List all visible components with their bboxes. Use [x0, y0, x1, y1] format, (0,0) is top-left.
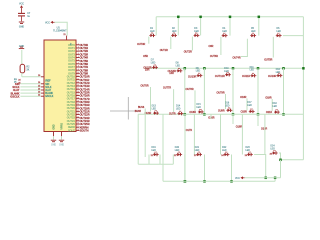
svg-text:LED: LED [273, 106, 278, 108]
svg-text:LED: LED [196, 71, 201, 73]
IC U1 TLC5940NT [44, 26, 76, 131]
svg-text:D1: D1 [150, 28, 154, 30]
wire [241, 39, 248, 57]
junction [232, 113, 235, 116]
svg-text:OUT8R: OUT8R [185, 88, 193, 91]
wire [61, 136, 63, 139]
svg-text:10: 10 [77, 72, 79, 74]
svg-text:LED: LED [176, 109, 181, 111]
svg-text:LED: LED [250, 70, 255, 72]
pin GSCLK (IC left) [41, 95, 44, 97]
svg-text:VCC: VCC [235, 177, 240, 180]
junction [203, 67, 206, 70]
LED D18 [274, 109, 280, 114]
wire [280, 160, 282, 178]
wire [20, 83, 41, 85]
svg-text:D20: D20 [175, 147, 180, 149]
svg-text:OU7R: OU7R [169, 113, 176, 116]
pin OUT0 (IC right, pin 1) [68, 43, 79, 46]
ground GND (below C7) [19, 22, 25, 29]
svg-text:24: 24 [38, 88, 40, 90]
junction [264, 177, 267, 180]
label D16 LED [225, 103, 230, 108]
svg-text:19: 19 [77, 100, 79, 102]
svg-text:O19R: O19R [261, 127, 268, 130]
svg-text:O5R: O5R [143, 55, 148, 58]
svg-text:24: 24 [77, 116, 79, 118]
svg-text:OUT6R: OUT6R [140, 84, 148, 87]
LED D19 [153, 152, 159, 157]
svg-text:LED: LED [222, 150, 227, 152]
junction [258, 16, 261, 18]
wire [283, 68, 285, 114]
svg-text:D5: D5 [251, 28, 255, 30]
svg-text:D19: D19 [151, 147, 156, 149]
svg-text:21: 21 [63, 34, 66, 36]
wire [172, 155, 174, 165]
svg-text:D13: D13 [152, 106, 157, 108]
svg-text:LED: LED [175, 150, 180, 152]
power flag VCC (matrix supply) [235, 176, 245, 180]
LED D22 [224, 152, 230, 157]
pin OUT10 (IC right, pin 11) [67, 75, 80, 78]
pin OUT4 (IC right, pin 5) [68, 56, 79, 59]
svg-text:OU10R: OU10R [268, 75, 277, 78]
svg-text:LED: LED [151, 63, 156, 65]
junction [184, 180, 187, 183]
LED D14 [178, 111, 184, 116]
wire [184, 68, 185, 71]
wire [148, 37, 150, 44]
wire [170, 37, 172, 49]
label D21 LED [195, 147, 200, 152]
junction [177, 16, 180, 18]
pin OUT5 (IC right, pin 6) [68, 59, 79, 62]
svg-text:14R: 14R [169, 72, 174, 75]
wire (lower link) [138, 163, 173, 165]
svg-text:OUT7R: OUT7R [163, 87, 171, 90]
ground GND (IC pin) [59, 140, 65, 146]
svg-text:LED: LED [195, 150, 200, 152]
label D15 LED [196, 104, 201, 109]
svg-text:24: 24 [18, 80, 21, 82]
LED D7 [152, 65, 158, 70]
pin OUT15 (IC right, pin 16) [67, 91, 80, 94]
LED D11 [251, 73, 257, 78]
junction [257, 67, 260, 70]
wire [254, 155, 266, 178]
svg-text:1u: 1u [27, 15, 30, 18]
wire [279, 153, 303, 160]
pin OUT3 (IC right, pin 4) [68, 53, 79, 56]
label D18 LED [273, 103, 278, 108]
svg-text:25: 25 [77, 119, 79, 121]
wire [232, 114, 234, 124]
junction [203, 113, 206, 116]
LED D2 [171, 33, 177, 38]
svg-text:D2: D2 [172, 28, 176, 30]
label D10 LED [224, 68, 229, 73]
junction [274, 177, 277, 180]
wire (row bus 3) [138, 113, 303, 115]
wire [20, 92, 41, 94]
LED D24 [272, 150, 278, 155]
wire [21, 50, 23, 64]
label D7 LED [151, 60, 156, 65]
wire [22, 76, 41, 78]
svg-text:27: 27 [77, 126, 79, 128]
svg-text:21: 21 [151, 155, 154, 157]
junction [302, 67, 305, 70]
svg-text:23: 23 [194, 155, 197, 157]
wire (row bus 2) [145, 67, 304, 69]
svg-text:OU11R: OU11R [242, 75, 250, 78]
pin IREF [41, 76, 44, 78]
svg-text:14: 14 [77, 85, 79, 87]
pin OUT2 (IC right, pin 3) [68, 50, 79, 53]
wire (right vertical bus) [302, 17, 304, 160]
junction [232, 67, 235, 70]
LED D15 [198, 109, 204, 114]
junction [282, 67, 285, 70]
svg-text:11: 11 [77, 75, 79, 77]
junction [184, 180, 187, 183]
pin OUT21 (IC right, pin 22) [67, 110, 80, 113]
label D20 LED [175, 147, 180, 152]
label D3 LED [194, 28, 199, 33]
svg-text:O17R: O17R [186, 129, 193, 132]
svg-text:26: 26 [77, 123, 79, 125]
wire [162, 114, 164, 181]
wire [191, 37, 193, 51]
wire [20, 95, 41, 97]
label D23 LED [246, 147, 251, 152]
svg-text:OU9R: OU9R [218, 109, 225, 112]
svg-text:O18R: O18R [240, 96, 247, 99]
wire [150, 87, 152, 111]
label D11 LED [250, 67, 255, 72]
junction [203, 180, 206, 183]
svg-text:O6R: O6R [208, 45, 213, 48]
wire [231, 155, 233, 182]
pin OUT7 (IC right, pin 8) [68, 66, 79, 69]
pin VCC (pin 21) [66, 36, 68, 40]
svg-text:28: 28 [77, 129, 79, 131]
wire [155, 17, 157, 36]
svg-text:SOUT: SOUT [68, 129, 75, 132]
pin SCLK (IC left) [41, 86, 44, 88]
svg-text:23: 23 [77, 113, 79, 115]
pin OUT18 (IC right, pin 19) [67, 100, 80, 103]
svg-text:D11: D11 [250, 67, 255, 69]
pin XLAT (IC left) [41, 89, 44, 91]
ground GND (IC pin) [51, 140, 57, 146]
wire [245, 177, 281, 179]
LED D21 [196, 152, 202, 157]
wire [144, 109, 146, 158]
label D14 LED [176, 106, 181, 111]
svg-text:O20R: O20R [241, 111, 248, 114]
wire [272, 37, 274, 58]
svg-text:VCC: VCC [19, 2, 24, 5]
svg-text:D4: D4 [222, 28, 226, 30]
LED D3 [194, 33, 200, 38]
svg-text:TLC5940NT: TLC5940NT [53, 29, 67, 32]
wire [283, 35, 304, 37]
junction [184, 67, 187, 70]
pin OUT1 (IC right, pin 2) [68, 47, 79, 50]
pin OUT12 (IC right, pin 13) [67, 81, 80, 84]
wire [148, 155, 150, 165]
LED D9 [197, 73, 203, 78]
wire [271, 99, 273, 111]
svg-text:23: 23 [38, 92, 40, 94]
power flag VCC (IC supply) [45, 21, 55, 25]
LED D6 [276, 33, 282, 38]
svg-text:D22: D22 [222, 147, 227, 149]
svg-text:GND: GND [54, 124, 56, 129]
svg-text:D12: D12 [276, 69, 281, 71]
svg-text:D17: D17 [247, 102, 252, 104]
label D19 LED [151, 147, 156, 152]
label D4 LED [222, 28, 227, 33]
label D8 LED [176, 63, 181, 68]
svg-text:22: 22 [174, 155, 177, 157]
svg-text:BUS5: BUS5 [135, 110, 142, 113]
wire [53, 136, 55, 139]
label D22 LED [222, 147, 227, 152]
junction [199, 16, 202, 18]
junction [257, 113, 260, 116]
wire [194, 90, 196, 111]
label D12 LED [276, 69, 281, 74]
svg-text:LED: LED [151, 150, 156, 152]
pin OUT25 (IC right, pin 26) [67, 123, 80, 126]
svg-text:D23: D23 [246, 147, 251, 149]
wire [220, 37, 222, 55]
pin OUT16 (IC right, pin 17) [67, 94, 80, 97]
junction [230, 180, 233, 183]
svg-text:22: 22 [77, 110, 79, 112]
wire [258, 17, 260, 36]
wire [55, 22, 68, 35]
wire [203, 68, 205, 114]
LED D10 [225, 72, 231, 77]
svg-text:12: 12 [77, 78, 79, 80]
wire [231, 68, 234, 74]
svg-text:SOUTN: SOUTN [80, 128, 89, 132]
svg-text:LED: LED [247, 105, 252, 107]
junction [279, 159, 282, 162]
pin OUT17 (IC right, pin 18) [67, 97, 80, 100]
LED D12 [277, 73, 283, 78]
svg-text:25: 25 [38, 85, 40, 87]
svg-text:21: 21 [77, 107, 79, 109]
wire [193, 114, 195, 154]
svg-text:GND: GND [51, 145, 56, 147]
LED D23 [247, 152, 253, 157]
svg-text:OUT12R: OUT12R [215, 75, 225, 78]
capacitor C7 [18, 12, 31, 18]
label D24 LED [270, 146, 275, 151]
pin SIN (IC left) [41, 83, 44, 85]
LED D8 [177, 68, 183, 73]
junction [184, 113, 187, 116]
wire [229, 17, 231, 36]
svg-text:25: 25 [245, 155, 248, 157]
wire [173, 89, 175, 112]
wire [177, 17, 179, 36]
LED D16 [227, 108, 233, 113]
svg-text:22: 22 [38, 95, 40, 97]
svg-text:D15: D15 [196, 104, 201, 106]
pin OUT13 (IC right, pin 14) [67, 85, 80, 88]
origin crosshair [110, 97, 139, 120]
pin XERR (IC right, pin 27) [68, 126, 80, 129]
label D6 LED [277, 28, 282, 33]
pin GND (IC bottom) [54, 124, 56, 136]
svg-text:LED: LED [225, 106, 230, 108]
svg-text:VPRG: VPRG [62, 123, 64, 130]
LED D20 [176, 152, 182, 157]
svg-text:18: 18 [77, 97, 79, 99]
svg-text:D14: D14 [176, 106, 181, 108]
junction [282, 113, 285, 116]
svg-text:D24: D24 [270, 146, 275, 148]
svg-text:OUT4R: OUT4R [232, 57, 240, 60]
wire [210, 114, 212, 119]
svg-text:13: 13 [77, 81, 79, 83]
svg-text:O16R: O16R [208, 117, 215, 120]
pin OUT8 (IC right, pin 9) [68, 69, 79, 72]
label D13 LED [152, 106, 157, 111]
svg-text:24: 24 [221, 155, 224, 157]
svg-text:LED: LED [246, 150, 251, 152]
svg-text:OU13R: OU13R [188, 75, 197, 78]
pin OUT6 (IC right, pin 7) [68, 62, 79, 65]
pin OUT22 (IC right, pin 23) [67, 113, 80, 116]
wire [21, 73, 23, 77]
svg-text:D21: D21 [195, 147, 200, 149]
svg-text:2K: 2K [26, 69, 29, 72]
wire [184, 155, 186, 182]
svg-text:D7: D7 [151, 60, 155, 62]
wire [232, 68, 234, 114]
wire [20, 89, 41, 91]
svg-text:20: 20 [38, 75, 40, 77]
wire [225, 94, 227, 109]
svg-text:20: 20 [77, 104, 79, 106]
label D17 LED [247, 102, 252, 107]
pin BLANK (IC left) [41, 92, 44, 94]
wire [257, 114, 259, 126]
svg-text:D16: D16 [225, 103, 230, 105]
pin numbers [18, 80, 21, 85]
wire [257, 68, 259, 75]
wire [21, 10, 23, 13]
pin OUT11 (IC right, pin 12) [67, 78, 79, 81]
svg-text:OUT3R: OUT3R [210, 55, 218, 58]
svg-text:17: 17 [77, 94, 79, 96]
power flag VCC (top left) [19, 2, 24, 10]
wire [21, 16, 23, 21]
svg-text:15: 15 [77, 88, 79, 90]
wire (bottom bus) [163, 180, 275, 182]
LED D17 [249, 109, 255, 114]
junction [229, 16, 232, 18]
wire [204, 155, 206, 182]
label D9 LED [196, 68, 201, 73]
LED D1 [149, 33, 155, 38]
pin VPRG (IC bottom) [62, 123, 64, 136]
LED D4 [222, 33, 228, 38]
svg-text:OU8R: OU8R [189, 111, 196, 114]
svg-text:O19R: O19R [265, 96, 272, 99]
svg-text:LED: LED [176, 66, 181, 68]
wire [264, 114, 266, 154]
svg-text:IREF: IREF [45, 80, 51, 83]
wire [137, 114, 139, 164]
wire [220, 114, 222, 154]
svg-text:OUT9R: OUT9R [216, 91, 224, 94]
wire [184, 114, 186, 181]
svg-text:D18: D18 [273, 103, 278, 105]
svg-text:OUT2R: OUT2R [184, 50, 192, 53]
LED D5 [250, 33, 256, 38]
svg-text:26: 26 [38, 82, 40, 84]
wire [246, 99, 248, 111]
svg-text:D3: D3 [194, 28, 198, 30]
svg-text:26: 26 [270, 153, 273, 155]
svg-text:GSCLK: GSCLK [45, 95, 54, 98]
wire [184, 68, 186, 114]
svg-text:GND: GND [19, 26, 25, 29]
svg-text:OUT5R: OUT5R [264, 59, 272, 62]
svg-text:LED: LED [196, 107, 201, 109]
svg-text:O21R: O21R [266, 111, 273, 114]
wire [159, 155, 161, 165]
wire (row bus 1) [156, 16, 303, 18]
ground GND (above R2) [19, 45, 25, 49]
svg-text:GND: GND [59, 145, 64, 147]
svg-text:OUT0R: OUT0R [137, 43, 145, 46]
svg-text:O18R: O18R [236, 126, 243, 129]
wire [241, 114, 243, 154]
wire [20, 86, 41, 88]
svg-text:D10: D10 [224, 68, 229, 70]
svg-text:VCC: VCC [45, 21, 50, 24]
pin OUT9 (IC right, pin 10) [68, 72, 79, 75]
svg-text:BUS6: BUS6 [138, 106, 145, 109]
svg-text:D8: D8 [176, 63, 180, 65]
wire [283, 68, 285, 75]
pin OUT20 (IC right, pin 21) [67, 107, 80, 110]
svg-text:15R: 15R [145, 69, 150, 72]
pin SOUT (IC right, pin 28) [68, 129, 80, 132]
pin OUT19 (IC right, pin 20) [67, 104, 80, 107]
pin OUT23 (IC right, pin 24) [67, 116, 80, 119]
svg-text:16: 16 [77, 91, 79, 93]
LED D13 [153, 110, 159, 115]
label D5 LED [251, 28, 256, 33]
svg-text:LED: LED [152, 109, 157, 111]
wire [203, 68, 206, 75]
wire [200, 17, 202, 36]
pin OUT14 (IC right, pin 15) [67, 88, 80, 91]
wire [257, 68, 259, 114]
resistor R2 [20, 64, 30, 73]
wire [274, 178, 276, 182]
